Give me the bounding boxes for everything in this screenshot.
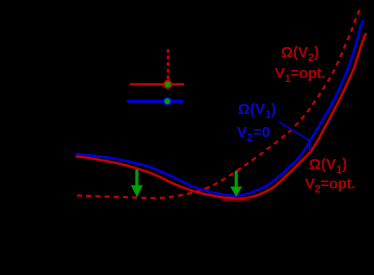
curve Omega(V2) V1=opt (red dashed)	[77, 10, 360, 198]
green arrow left	[131, 170, 143, 198]
svg-text:Ω(V1): Ω(V1)	[238, 101, 276, 121]
svg-text:Ω(V2): Ω(V2)	[281, 44, 319, 64]
leader line from blue label to blue curve	[279, 122, 310, 152]
inset: green dot on red level	[164, 81, 172, 89]
curve Omega(V1) V2=0 (blue solid)	[76, 20, 363, 196]
svg-text:V2=opt.: V2=opt.	[305, 175, 355, 195]
dark red artifact under red minimum	[222, 199, 252, 201]
inset: blue level line	[127, 100, 183, 103]
inset: green dot on blue level	[164, 98, 172, 106]
inset: red dashed vertical transition line	[167, 49, 170, 80]
curve Omega(V1) V2=opt (red solid)	[76, 33, 366, 199]
green arrow right	[230, 171, 242, 197]
svg-text:V1=opt.: V1=opt.	[275, 65, 325, 85]
svg-text:Ω(V1): Ω(V1)	[309, 156, 347, 176]
inset: red level line	[130, 83, 184, 86]
